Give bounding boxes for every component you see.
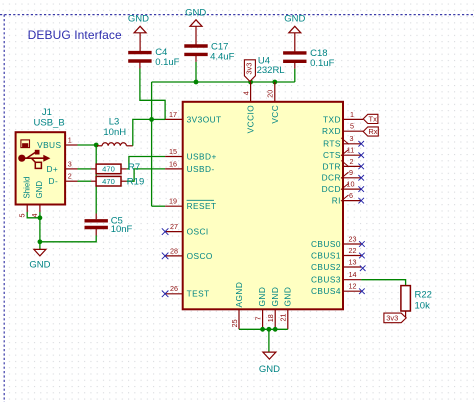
junction GND pin7 bbox=[260, 327, 265, 332]
junction rail/VCCIO bbox=[248, 80, 253, 85]
pin 20 VCC bbox=[266, 82, 280, 124]
pin 22 CBUS1 bbox=[311, 246, 361, 261]
wire 3v3 vertical from rail down to RESET bbox=[151, 82, 153, 206]
resistor R7 bbox=[91, 162, 140, 174]
wire VBUS junction down to C5 (behind R7/R19) bbox=[95, 145, 97, 214]
power label 3v3 at R22 bbox=[384, 313, 406, 323]
svg-text:GND: GND bbox=[128, 14, 149, 25]
pin 4 VCCIO bbox=[241, 82, 255, 133]
pin 28 OSCO bbox=[165, 246, 213, 260]
svg-text:10nF: 10nF bbox=[111, 224, 133, 235]
wire R19 to USBD- bbox=[127, 169, 166, 181]
no-connect X CBUS0 bbox=[359, 241, 365, 247]
connector J1 outline bbox=[16, 132, 66, 204]
wire L3 up to pin17 row bbox=[133, 119, 152, 145]
pin 14 CBUS3 bbox=[311, 270, 361, 285]
svg-text:5: 5 bbox=[18, 214, 27, 218]
svg-text:20: 20 bbox=[266, 90, 275, 98]
wire VBUS to L3 bbox=[78, 144, 98, 146]
svg-text:J1: J1 bbox=[42, 107, 52, 118]
svg-text:R19: R19 bbox=[127, 176, 144, 187]
svg-text:DCD: DCD bbox=[322, 184, 341, 194]
pin 15 USBD+ bbox=[165, 147, 217, 162]
svg-text:CBUS1: CBUS1 bbox=[311, 250, 341, 260]
pin 17 3V3OUT bbox=[165, 110, 221, 125]
pin 3 RTS bbox=[323, 134, 361, 149]
pin 9 DCR bbox=[322, 168, 362, 183]
svg-text:GND: GND bbox=[35, 181, 44, 199]
pin 7 GND bbox=[253, 287, 267, 330]
ground symbol above C17 bbox=[190, 20, 202, 45]
svg-text:19: 19 bbox=[169, 197, 177, 206]
svg-text:3: 3 bbox=[350, 134, 354, 143]
svg-text:0.1uF: 0.1uF bbox=[310, 58, 334, 69]
wire pin4 down bbox=[39, 212, 41, 249]
resistor R22 bbox=[401, 286, 432, 318]
svg-text:DEBUG Interface: DEBUG Interface bbox=[28, 28, 122, 42]
capacitor C5 bbox=[85, 214, 133, 236]
junction GND/C5 bbox=[38, 239, 43, 244]
svg-text:R7: R7 bbox=[128, 162, 140, 173]
junction pin5/pin4 bbox=[38, 215, 43, 220]
J1 pin 2 D- bbox=[49, 172, 78, 187]
no-connect X RI bbox=[358, 198, 364, 204]
junction GND drop bbox=[267, 327, 272, 332]
wire RESET bbox=[152, 205, 166, 207]
wire junction to pin17 bbox=[152, 118, 166, 120]
svg-text:GND: GND bbox=[257, 287, 267, 307]
svg-text:CBUS3: CBUS3 bbox=[311, 275, 341, 285]
svg-text:25: 25 bbox=[230, 319, 239, 327]
svg-text:9: 9 bbox=[349, 168, 353, 177]
svg-text:10nH: 10nH bbox=[103, 127, 126, 138]
pin 1 TXD bbox=[323, 110, 363, 125]
svg-text:CBUS0: CBUS0 bbox=[311, 239, 341, 249]
svg-text:3v3: 3v3 bbox=[386, 314, 398, 323]
svg-text:21: 21 bbox=[279, 314, 288, 322]
junction 3v3/pin17 bbox=[149, 117, 154, 122]
pin 2 DTR bbox=[322, 157, 361, 172]
svg-text:OSCI: OSCI bbox=[187, 227, 209, 237]
pin 27 OSCI bbox=[165, 222, 209, 237]
capacitor C18 bbox=[283, 53, 306, 61]
junction GND pin18 bbox=[273, 327, 278, 332]
ground symbol above C18 bbox=[289, 26, 301, 51]
svg-text:USBD-: USBD- bbox=[187, 164, 215, 174]
pin 13 CBUS2 bbox=[311, 257, 361, 272]
svg-text:VBUS: VBUS bbox=[37, 140, 61, 150]
pin 25 AGND bbox=[230, 282, 244, 330]
wire C5 bottom to GND bbox=[40, 236, 96, 242]
svg-text:TXD: TXD bbox=[323, 114, 341, 124]
svg-text:CBUS4: CBUS4 bbox=[311, 286, 341, 296]
svg-text:GND: GND bbox=[270, 287, 280, 307]
svg-text:10k: 10k bbox=[415, 301, 431, 312]
no-connect X CBUS1 bbox=[359, 253, 365, 259]
pin 26 TEST bbox=[165, 284, 210, 299]
pin 12 CBUS4 bbox=[311, 282, 361, 297]
junction VBUS/C5 bbox=[94, 143, 99, 148]
svg-text:14: 14 bbox=[349, 270, 357, 279]
svg-text:18: 18 bbox=[266, 314, 275, 322]
svg-text:GND: GND bbox=[282, 287, 292, 307]
pin 5 RXD bbox=[322, 122, 363, 137]
pin 19 RESET bbox=[165, 197, 216, 212]
svg-text:D+: D+ bbox=[46, 164, 58, 174]
svg-text:13: 13 bbox=[349, 257, 357, 266]
svg-text:OSCO: OSCO bbox=[187, 251, 213, 261]
svg-text:6: 6 bbox=[349, 191, 353, 200]
wire bottom GND bus bbox=[239, 328, 288, 330]
svg-text:23: 23 bbox=[349, 234, 357, 243]
global label Tx bbox=[363, 114, 378, 123]
svg-text:VCCIO: VCCIO bbox=[246, 105, 256, 134]
svg-text:GND: GND bbox=[259, 364, 280, 375]
svg-text:470: 470 bbox=[102, 177, 115, 186]
svg-text:0.1uF: 0.1uF bbox=[155, 57, 179, 68]
svg-text:RI: RI bbox=[332, 196, 341, 206]
svg-text:4.4uF: 4.4uF bbox=[210, 52, 234, 63]
svg-text:470: 470 bbox=[102, 165, 115, 174]
pin 6 RI bbox=[332, 191, 361, 206]
svg-text:RESET: RESET bbox=[187, 201, 217, 211]
svg-text:11: 11 bbox=[347, 146, 354, 155]
svg-text:2: 2 bbox=[68, 172, 72, 181]
no-connect X DCR bbox=[358, 175, 364, 181]
svg-text:27: 27 bbox=[170, 222, 178, 231]
capacitor C17 bbox=[184, 46, 207, 54]
wire GND drop down bbox=[268, 329, 270, 352]
pin 10 DCD bbox=[322, 180, 362, 195]
svg-text:1: 1 bbox=[350, 110, 354, 119]
pin 11 CTS bbox=[323, 146, 361, 161]
svg-text:10: 10 bbox=[347, 180, 355, 189]
pin 16 USBD- bbox=[165, 159, 215, 174]
global label Rx bbox=[363, 127, 378, 136]
svg-text:GND: GND bbox=[185, 8, 206, 19]
svg-text:3v3: 3v3 bbox=[245, 63, 254, 75]
svg-text:DCR: DCR bbox=[322, 173, 341, 183]
svg-text:RXD: RXD bbox=[322, 126, 341, 136]
no-connect X TEST bbox=[162, 291, 169, 298]
svg-text:28: 28 bbox=[170, 246, 178, 255]
capacitor C4 bbox=[128, 53, 151, 61]
svg-text:2: 2 bbox=[350, 157, 354, 166]
no-connect X RTS bbox=[358, 141, 364, 147]
svg-text:D-: D- bbox=[49, 176, 59, 186]
svg-text:GND: GND bbox=[284, 14, 305, 25]
wire D- to R19 bbox=[78, 180, 92, 182]
wire C4 down and over to pin17 bbox=[140, 69, 165, 120]
wire CBUS3 to R22 bbox=[361, 280, 406, 286]
svg-text:L3: L3 bbox=[109, 116, 120, 127]
svg-text:RTS: RTS bbox=[323, 139, 341, 149]
power label 3v3 at U4 bbox=[244, 60, 255, 82]
svg-text:3V3OUT: 3V3OUT bbox=[187, 114, 222, 124]
J1 pin 3 D+ bbox=[46, 159, 77, 174]
svg-text:22: 22 bbox=[349, 246, 357, 255]
USB icon bbox=[18, 140, 50, 169]
svg-text:5: 5 bbox=[350, 122, 354, 131]
svg-text:12: 12 bbox=[349, 282, 357, 291]
svg-text:16: 16 bbox=[169, 159, 177, 168]
svg-text:26: 26 bbox=[170, 284, 178, 293]
J1 pin 1 VBUS bbox=[37, 135, 77, 150]
svg-text:CBUS2: CBUS2 bbox=[311, 262, 341, 272]
svg-text:CTS: CTS bbox=[323, 150, 341, 160]
wire C18 down to 3v3 rail bbox=[294, 69, 296, 82]
svg-text:R22: R22 bbox=[415, 289, 432, 300]
wire 3v3 rail horizontal bbox=[152, 81, 295, 83]
pin 23 CBUS0 bbox=[311, 234, 361, 249]
J1 pin 5 Shield bbox=[18, 177, 32, 218]
no-connect X CBUS4 bbox=[359, 288, 365, 294]
svg-text:AGND: AGND bbox=[234, 282, 244, 308]
svg-text:GND: GND bbox=[29, 259, 50, 270]
svg-text:Shield: Shield bbox=[23, 177, 32, 199]
no-connect X DTR bbox=[358, 164, 364, 170]
svg-text:15: 15 bbox=[169, 147, 177, 156]
svg-text:Rx: Rx bbox=[368, 127, 377, 136]
no-connect X CTS bbox=[358, 152, 364, 158]
no-connect X CBUS2 bbox=[360, 265, 366, 271]
svg-text:1: 1 bbox=[68, 135, 72, 144]
svg-text:USBD+: USBD+ bbox=[187, 151, 217, 161]
junction rail/VCC bbox=[272, 80, 277, 85]
ground symbol below U4 bbox=[263, 352, 276, 359]
no-connect X OSCO bbox=[162, 253, 169, 260]
ground symbol above C4 bbox=[134, 26, 146, 51]
svg-text:7: 7 bbox=[253, 317, 262, 321]
no-connect X OSCI bbox=[162, 228, 169, 235]
pin 21 GND bbox=[279, 287, 293, 330]
svg-text:VCC: VCC bbox=[270, 105, 280, 124]
junction C17/rail bbox=[194, 80, 199, 85]
pin 18 GND bbox=[266, 287, 280, 330]
svg-text:Tx: Tx bbox=[369, 114, 378, 123]
J1 pin 4 GND bbox=[30, 181, 44, 218]
svg-text:232RL: 232RL bbox=[257, 65, 285, 76]
IC U4 body bbox=[183, 102, 343, 309]
resistor R19 bbox=[91, 176, 144, 187]
wire C17 down to 3v3 rail bbox=[195, 62, 197, 82]
wire R7 to USBD+ bbox=[127, 157, 166, 169]
wire pin5 to pin4 bbox=[27, 212, 40, 218]
inductor L3 bbox=[97, 143, 133, 146]
svg-text:TEST: TEST bbox=[187, 289, 210, 299]
svg-text:4: 4 bbox=[241, 91, 250, 95]
svg-text:USB_B: USB_B bbox=[34, 117, 65, 128]
wire D+ to R7 bbox=[78, 168, 92, 170]
svg-text:3: 3 bbox=[68, 159, 72, 168]
ground symbol J1 bbox=[34, 249, 46, 256]
svg-text:17: 17 bbox=[169, 110, 177, 119]
svg-text:DTR: DTR bbox=[322, 161, 340, 171]
no-connect X DCD bbox=[358, 186, 364, 192]
